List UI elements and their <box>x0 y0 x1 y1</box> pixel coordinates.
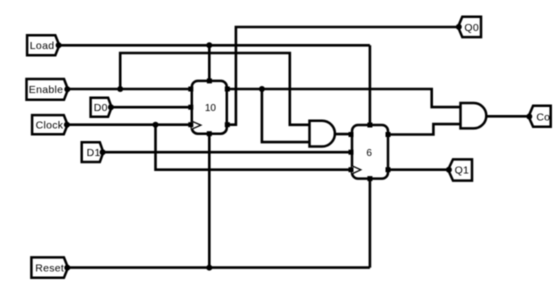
wire Enable horizontal <box>67 88 192 91</box>
wire FF10 lower output to Q0 <box>227 27 458 125</box>
svg-text:D0: D0 <box>94 102 108 114</box>
AND gate G2 <box>461 103 487 128</box>
wire Load horizontal <box>59 44 370 47</box>
wire FF10 Q output to AND G2 top input <box>227 89 461 107</box>
svg-text:Load: Load <box>30 40 55 52</box>
output tag Q1 <box>446 159 472 180</box>
svg-text:10: 10 <box>205 103 217 114</box>
svg-text:Q0: Q0 <box>464 22 479 34</box>
wire Load to FF6 top pin <box>369 45 372 125</box>
wire AND G2 output to Co <box>486 115 529 118</box>
svg-text:Clock: Clock <box>36 120 64 132</box>
junction Enable branch <box>117 86 123 92</box>
AND gate G1 <box>310 121 335 147</box>
input tag Enable <box>27 79 71 100</box>
input tag D0 <box>91 98 114 117</box>
svg-text:D1: D1 <box>87 147 101 159</box>
junction Load/FF10 <box>206 42 212 48</box>
wire Reset horizontal <box>67 266 370 269</box>
input tag Load <box>27 35 62 55</box>
input tag Reset <box>31 257 70 277</box>
junction Reset/FF10 <box>206 265 212 271</box>
wire FF10 bottom pin to Reset <box>208 134 211 268</box>
wire FF6 lower output to Q1 <box>388 168 448 171</box>
junction Clock branch <box>153 122 159 128</box>
wire FF10 Q branch to AND G1 bottom input <box>262 89 310 142</box>
svg-text:Co: Co <box>536 111 550 123</box>
flip-flop U2 <box>349 123 391 182</box>
wire Reset to FF6 bottom pin <box>369 179 372 268</box>
wire Enable branch to AND G1 top input <box>120 53 309 125</box>
input tag Clock <box>32 115 70 134</box>
wire AND G1 output to FF6 enable pin <box>334 133 352 136</box>
input tag D1 <box>82 142 106 162</box>
output tag Co <box>526 106 550 127</box>
output tag Q0 <box>456 17 481 37</box>
wire Clock branch to FF6 clock pin <box>156 125 353 170</box>
wire D0 horizontal <box>111 106 192 109</box>
wire Clock horizontal <box>67 123 192 126</box>
svg-text:6: 6 <box>366 148 372 159</box>
flip-flop U1 <box>188 78 230 136</box>
svg-text:Enable: Enable <box>29 84 64 96</box>
wire D1 horizontal <box>103 151 352 154</box>
svg-text:Reset: Reset <box>35 262 64 274</box>
junction FF10 Q branch <box>259 86 265 92</box>
wire FF6 Q output to AND G2 bottom input <box>388 124 461 134</box>
svg-text:Q1: Q1 <box>455 165 470 177</box>
wire Load to FF10 top pin <box>208 45 211 81</box>
